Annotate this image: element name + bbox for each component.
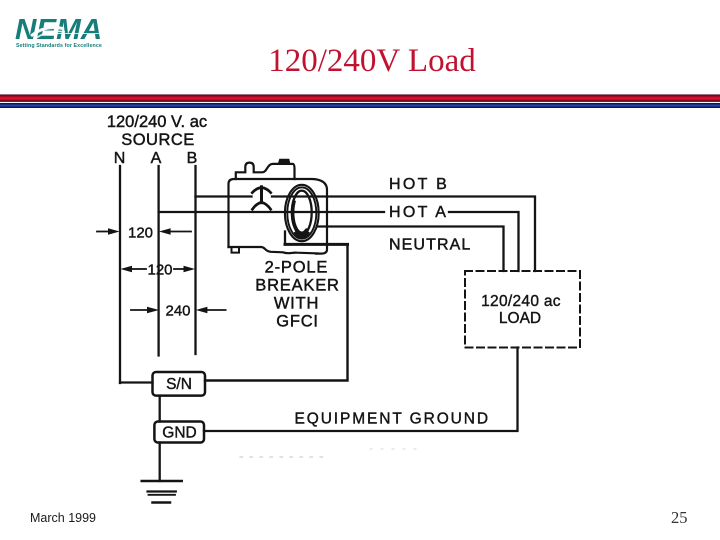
svg-text:120/240 ac: 120/240 ac [481,293,561,310]
svg-text:LOAD: LOAD [499,310,541,327]
svg-text:GND: GND [162,425,196,442]
svg-text:NEUTRAL: NEUTRAL [389,237,471,254]
svg-text:120: 120 [128,225,153,242]
svg-text:BREAKER: BREAKER [255,277,339,295]
svg-text:240: 240 [165,303,190,320]
svg-text:120/240 V. ac: 120/240 V. ac [107,113,207,131]
svg-text:120: 120 [147,262,172,279]
svg-text:2-POLE: 2-POLE [265,259,329,277]
svg-text:B: B [187,150,198,167]
svg-text:HOT A: HOT A [389,204,448,221]
svg-text:HOT B: HOT B [389,176,449,193]
svg-text:N: N [114,150,126,167]
svg-text:GFCI: GFCI [276,313,319,331]
svg-text:WITH: WITH [274,295,319,313]
svg-text:S/N: S/N [166,376,192,393]
svg-text:EQUIPMENT GROUND: EQUIPMENT GROUND [295,411,490,428]
svg-text:SOURCE: SOURCE [121,131,195,149]
svg-text:A: A [151,150,162,167]
